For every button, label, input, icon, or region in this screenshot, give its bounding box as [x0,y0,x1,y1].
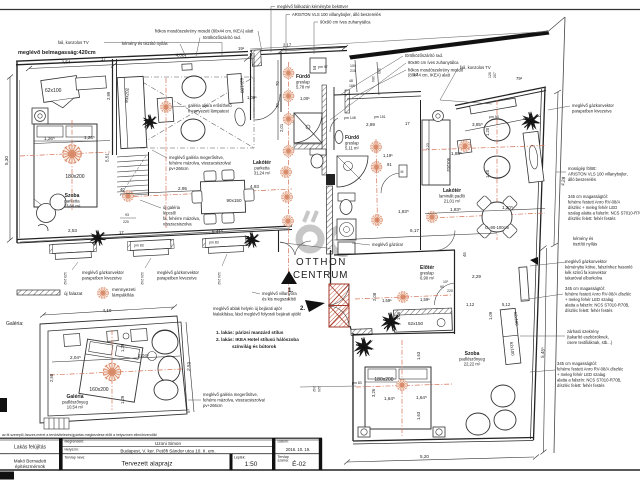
corridor double doors under living1 [280,241,311,255]
svg-text:OTTHON: OTTHON [296,257,347,268]
svg-text:kémény és: kémény és [573,236,593,241]
svg-text:új galéria: új galéria [163,205,181,210]
svg-text:5,30: 5,30 [4,156,9,165]
lamp stairs bottom [123,191,134,202]
galeria chairs right [152,330,178,354]
svg-text:70: 70 [275,103,280,108]
svg-text:2,99: 2,99 [106,91,111,100]
svg-text:1,26⁵: 1,26⁵ [44,136,55,141]
svg-text:Uzoni Simon: Uzoni Simon [155,441,181,446]
svg-text:5,78 m²: 5,78 m² [296,85,311,90]
svg-text:19⁵: 19⁵ [238,46,245,51]
galeria inner box [48,322,187,416]
legend lamp [98,288,109,299]
svg-text:fehérre festett Anro RV-08/A d: fehérre festett Anro RV-08/A díszléc [565,292,631,297]
svg-text:5,12: 5,12 [502,302,511,307]
window bay 3 [202,236,249,253]
svg-text:Tervezett alaprajz: Tervezett alaprajz [122,461,173,468]
svg-text:5⁵: 5⁵ [186,408,191,413]
svg-text:1,83⁵: 1,83⁵ [450,207,461,212]
dim 6,41 bottom [20,228,290,242]
arrow 2 [305,300,325,312]
svg-text:22,22 m²: 22,22 m² [464,362,481,367]
wardrobe 62x100 szoba2 [500,308,521,364]
svg-text:pm 93: pm 93 [489,115,499,119]
svg-text:pm 83: pm 83 [134,244,144,248]
svg-text:1,19⁵: 1,19⁵ [383,153,393,158]
svg-text:1,00⁵: 1,00⁵ [300,96,310,101]
svg-text:2,53: 2,53 [68,228,77,233]
lamp dining [224,187,235,198]
pouf chairs szoba1 [37,204,56,223]
armchair living2 a [484,119,510,141]
shower bath1 [294,113,322,143]
svg-text:2,58: 2,58 [49,373,54,382]
galeria nightstands [64,333,81,346]
galeria outline outer [40,316,187,423]
title block frame [0,438,322,470]
thin roofline above band [250,32,548,50]
dim 5,30 left [9,77,11,240]
mirror M box hall [399,165,407,177]
kitchen fridge [338,242,355,254]
bath2 left wall upper [333,87,335,150]
armchair living2 b [484,156,510,178]
svg-text:6,41⁵: 6,41⁵ [212,229,223,234]
svg-text:1,63: 1,63 [416,351,421,360]
dim 5,20 bottom [347,457,534,462]
szoba2 bottom wall [353,438,534,442]
armchairs szoba2 [466,413,490,435]
svg-text:1,00⁵: 1,00⁵ [247,95,257,100]
svg-text:1,20: 1,20 [485,127,490,136]
lamp living1 coffee [161,102,172,113]
red axis eloter [355,295,452,299]
svg-text:kék színű fa konvektor: kék színű fa konvektor [565,270,607,275]
svg-text:álló beszerelés: álló beszerelés [568,177,596,182]
svg-text:pm 148: pm 148 [344,116,356,120]
dim line 4,28 right [554,92,558,245]
wc bath1 [310,149,326,168]
gazkonvektor radiator right [519,267,529,301]
lamp szoba2 [397,380,408,391]
wall segment below entrance [351,329,372,336]
leaders top [104,7,318,58]
svg-text:2,17: 2,17 [283,43,292,48]
svg-text:(takarító eszközöknek,: (takarító eszközöknek, [567,335,609,340]
svg-text:180x200: 180x200 [374,377,393,383]
dims living2 [465,116,541,131]
svg-text:lámpákílás: lámpákílás [112,293,135,298]
bottom window wall left section (double) [17,226,292,240]
svg-text:meglévő ablak helyén új bejára: meglévő ablak helyén új bejárati ajtó! [213,306,282,311]
svg-text:Tervlap neve:: Tervlap neve: [65,456,86,460]
entrance swing arcs [328,284,349,327]
svg-text:+ meleg fehér LED szalag: + meleg fehér LED szalag [565,297,614,302]
svg-text:124 242: 124 242 [217,272,221,285]
svg-text:1,64⁵: 1,64⁵ [384,396,395,401]
washer M box bath1 [310,58,326,73]
hatched wall right of bath1 [345,90,350,113]
window bay 2 [127,239,174,256]
legend new wall hatched bar [17,290,60,295]
svg-text:5,45⁵: 5,45⁵ [540,347,545,358]
szoba2 left wall [352,333,354,441]
corridor wall stub [278,230,280,252]
bed 180x200 szoba1 [34,124,97,207]
svg-text:Lakás felújítás: Lakás felújítás [14,445,46,451]
svg-text:6,90 m²: 6,90 m² [420,276,435,281]
svg-text:lépcső!: lépcső! [163,211,176,216]
black corner tab bottom-left [0,472,14,480]
bath2 sink [335,131,343,144]
plants eloter [381,312,402,333]
svg-text:É-02: É-02 [292,459,306,468]
svg-text:pv+266cm: pv+266cm [169,166,189,171]
chimney hatched box top [252,50,262,66]
svg-text:M: M [312,66,317,70]
svg-text:Galéria:: Galéria: [6,321,24,327]
top dim line 2.54 / 4.08 [29,59,252,69]
arrow 1 [281,271,297,284]
svg-text:fehérre mázolva, visszacsiszol: fehérre mázolva, visszacsiszolva! [169,161,231,166]
svg-text:takaróval elburkolva: takaróval elburkolva [565,276,603,281]
svg-text:5,20: 5,20 [420,454,429,459]
dim line 5,45 right [544,248,547,452]
svg-text:kéménybe kötve, falszínhez has: kéménybe kötve, falszínhez hasonló [565,265,633,270]
svg-text:90x90 cm íves zuhanytálca: 90x90 cm íves zuhanytálca [320,20,371,25]
svg-text:fiókos mosdószekrény mosdó (80: fiókos mosdószekrény mosdó (80x44 cm, IK… [155,29,254,34]
svg-text:2016. 10. 19.: 2016. 10. 19. [286,447,310,452]
svg-text:száma:: száma: [278,458,289,462]
dim line 1,26 szoba1 [34,141,110,144]
svg-text:62x150: 62x150 [408,321,424,326]
red axes szoba2 [356,384,452,387]
svg-text:164: 164 [371,76,375,82]
svg-text:1,59⁵: 1,59⁵ [382,298,392,303]
svg-text:17: 17 [101,57,106,62]
leader line bed szoba2 [300,386,356,387]
svg-text:2,01: 2,01 [279,123,284,132]
svg-text:2,53: 2,53 [186,361,192,371]
galeria bed rotated [79,339,143,402]
chimney black mid [326,174,335,185]
svg-text:70: 70 [275,81,280,86]
svg-text:meglévő gázkonvektor: meglévő gázkonvektor [82,270,125,275]
bath1 left wall [280,52,282,112]
svg-text:fa, fehérre mázolva,: fa, fehérre mázolva, [163,216,200,221]
hatched wall bath1 right [322,85,327,175]
svg-text:1,06: 1,06 [396,311,401,320]
svg-text:fehérre mázolva, visszacsiszol: fehérre mázolva, visszacsiszolva! [203,398,265,403]
svg-text:Dátum:: Dátum: [278,440,289,444]
svg-text:építészmérnök: építészmérnök [15,464,46,469]
washing machine szoba1 [32,108,48,124]
svg-text:1,63: 1,63 [416,411,421,420]
svg-text:mosógép fölött:: mosógép fölött: [568,166,597,171]
svg-text:1,20: 1,20 [485,169,490,178]
svg-text:ARISTON VLS 100 villanybojler,: ARISTON VLS 100 villanybojler, álló besz… [292,12,381,17]
living2/szoba2 right wall [534,88,546,440]
svg-text:parapetben kivezetve: parapetben kivezetve [572,109,612,114]
kitchen sink [338,193,355,215]
corridor wall left [250,53,252,120]
svg-text:345 cm magasságtól:: 345 cm magasságtól: [557,361,597,366]
sofa 90x202 living1 [117,76,147,148]
svg-text:kémény és tisztító nyílás: kémény és tisztító nyílás [122,41,168,46]
svg-text:+ meleg fehér LED szalag: + meleg fehér LED szalag [557,372,606,377]
svg-text:2,29: 2,29 [472,274,481,279]
svg-text:díszléc felett: fehér festés: díszléc felett: fehér festés [565,308,612,313]
black margin tab left [0,398,7,412]
svg-text:díszléc felett: fehér festés: díszléc felett: fehér festés [568,216,615,221]
outer wall top-left section (double line) [16,52,248,62]
svg-text:1,26⁵: 1,26⁵ [84,135,95,140]
window bay 1 [49,242,97,259]
svg-text:pm 151: pm 151 [374,115,386,119]
nightstand szoba2 right [433,427,445,437]
dim line bottom living2 [334,233,497,240]
outer wall left side [16,62,18,243]
svg-text:2,54: 2,54 [62,60,71,65]
red axes living1 [165,78,167,228]
svg-text:160x200: 160x200 [89,387,108,393]
svg-text:2,89: 2,89 [366,122,375,127]
svg-text:90: 90 [440,285,444,289]
dim 2,95 row [120,191,200,195]
svg-text:1,20⁵: 1,20⁵ [502,205,513,210]
lamp living2 table [460,141,471,152]
svg-text:1,29: 1,29 [120,395,125,404]
page top border [0,9,640,11]
svg-text:5,51: 5,51 [105,153,110,162]
svg-text:szalag alatta a falszín: NCS S: szalag alatta a falszín: NCS S7010-R70B, [568,211,640,216]
svg-text:345 cm magasságtól:: 345 cm magasságtól: [565,286,605,291]
entrance door red cross [329,284,349,327]
round dining table living2 [476,195,518,239]
door arc eloter top [436,231,455,251]
lamps living2 bottom [427,212,438,223]
dining table living1 [192,170,254,224]
bath2 door arc [330,118,338,132]
svg-text:fehérre festett Anro RV-08/A: fehérre festett Anro RV-08/A [568,200,621,205]
svg-text:2,95: 2,95 [178,186,187,191]
stairs treads [117,155,148,196]
svg-text:M: M [401,170,404,174]
wall left of living2 [420,100,422,250]
svg-text:pm 97: pm 97 [318,65,328,69]
svg-text:Budapest, V. ker. Petőfi Sándo: Budapest, V. ker. Petőfi Sándor utca 10.… [120,449,215,454]
sill hatched below shower [294,144,322,149]
svg-text:pm 83: pm 83 [209,241,219,245]
svg-text:79⁵: 79⁵ [516,76,523,81]
svg-text:meglévő gázkonvektor: meglévő gázkonvektor [565,259,608,264]
svg-text:180x200: 180x200 [65,174,84,180]
svg-text:mennyezeti: mennyezeti [112,287,136,292]
living1 gallery dashed outline [134,77,254,148]
svg-text:17: 17 [405,121,410,126]
couch 90x202 living2 [422,120,450,185]
svg-text:1,12: 1,12 [466,302,475,307]
svg-text:5,11 m²: 5,11 m² [345,146,359,151]
svg-text:díszléc + meleg fehér LED: díszléc + meleg fehér LED [568,205,617,210]
red axes living2 [430,213,545,218]
svg-text:meglévő belmagasság:420cm: meglévő belmagasság:420cm [18,50,96,56]
svg-text:31,24 m²: 31,24 m² [254,171,271,176]
svg-text:2,04⁵: 2,04⁵ [70,355,81,360]
svg-text:10⁵: 10⁵ [443,280,449,284]
sideboard living2 [523,131,544,182]
svg-text:215: 215 [350,69,356,73]
svg-text:O=90-100cm: O=90-100cm [485,225,510,230]
svg-text:meglévő gázkonvektor: meglévő gázkonvektor [157,270,200,275]
svg-text:parapetben kivezetve: parapetben kivezetve [82,276,122,281]
wall between szoba1 and stairs [112,59,114,155]
stair right wall [148,152,150,196]
svg-text:meglévő villanyóra: meglévő villanyóra [262,291,297,296]
szoba1 daybed 62x100 [41,76,81,111]
lamp chain bath column [283,68,294,79]
title block texts [14,440,310,470]
svg-text:csere textíliáknak, stb...): csere textíliáknak, stb...) [567,340,613,345]
svg-text:(80x44 cm, IKEA) alatt: (80x44 cm, IKEA) alatt [408,73,451,78]
small table living2 [457,139,472,154]
svg-text:1:50: 1:50 [245,461,258,468]
svg-text:alatta a falszín: NCS S7010-R7: alatta a falszín: NCS S7010-R70B, [557,378,621,383]
svg-text:kialakítása, lásd meglévő foly: kialakítása, lásd meglévő folyosói bejár… [213,312,301,317]
svg-text:Helyszín:: Helyszín: [65,448,79,452]
armchair living1 a [182,76,206,98]
galeria dim 4,10 [43,307,174,315]
armchair living1 b [181,119,205,141]
svg-text:1,83⁵: 1,83⁵ [398,209,409,214]
svg-text:220: 220 [123,220,129,224]
radiator label leaders [72,254,227,270]
svg-text:17: 17 [119,230,124,235]
wall stub below entrance [350,326,353,336]
svg-text:120: 120 [488,72,492,78]
svg-text:CENTRUM: CENTRUM [293,270,348,281]
svg-text:Makó Bernadett: Makó Bernadett [14,459,47,464]
svg-text:62x100: 62x100 [239,78,245,94]
corridor door arc [254,94,280,120]
svg-text:és kis megszakító!: és kis megszakító! [262,297,296,302]
svg-text:tisztító nyílás: tisztító nyílás [573,242,597,247]
kitchen hatched wall [327,186,333,254]
wall eloter/szoba2 vertical [454,250,456,334]
svg-text:124 242: 124 242 [140,272,144,285]
boundary top right tick [548,17,565,32]
szoba2 top wall [353,333,454,335]
tv rect on top wall [182,64,192,71]
plant living1 [142,114,158,130]
svg-text:90x90 cm íves zuhanytálca: 90x90 cm íves zuhanytálca [408,60,459,65]
svg-text:10,54 m²: 10,54 m² [67,405,84,410]
watermark otthon centrum logo [299,211,347,253]
svg-text:meglévő galéria megerősítve,: meglévő galéria megerősítve, [169,155,224,160]
svg-text:meglévő falikazán kéménybe bek: meglévő falikazán kéménybe bekötve! [277,4,348,9]
svg-text:fehérre festett Anro RV-08/A d: fehérre festett Anro RV-08/A díszléc [557,367,623,372]
galeria lamp [103,363,120,380]
svg-text:mennyezeti lámpatest: mennyezeti lámpatest [188,109,230,114]
svg-text:2,08: 2,08 [372,292,377,301]
svg-text:90x202: 90x202 [124,87,130,103]
svg-text:93: 93 [125,213,129,217]
svg-text:meglévő galéria megerősítve,: meglévő galéria megerősítve, [203,392,258,397]
svg-text:3,26: 3,26 [371,388,376,397]
svg-text:1. lakás: párizsi manzárd stíl: 1. lakás: párizsi manzárd stílus [216,330,284,335]
svg-text:6,17: 6,17 [410,228,419,233]
svg-text:90x150: 90x150 [226,198,242,203]
svg-text:törölközőszárító rad.: törölközőszárító rad. [405,53,443,58]
svg-text:új falazat: új falazat [64,291,83,296]
wall under living2 [334,250,455,255]
svg-text:207: 207 [493,72,497,78]
tv cabinet living2 top [470,98,517,114]
property boundary right (thin) [554,17,565,453]
svg-text:48: 48 [349,79,353,83]
svg-text:2,23: 2,23 [426,143,430,150]
svg-text:220: 220 [447,289,453,293]
bed 180x200 szoba2 [365,367,431,429]
svg-text:1,88⁵: 1,88⁵ [451,151,462,156]
svg-text:4,93: 4,93 [250,184,259,189]
svg-text:zárható szekrény: zárható szekrény [567,329,600,334]
svg-text:40: 40 [120,187,125,192]
red axis szoba1 [20,152,110,156]
top wall mid section over bath [250,47,347,52]
svg-text:Megrendelő:: Megrendelő: [65,440,84,444]
galeria steps [44,418,69,429]
svg-text:ARISTON VLS 100 villanybojler,: ARISTON VLS 100 villanybojler, [568,172,628,177]
nightstand szoba2 left [358,427,370,437]
side oval living1 [234,107,246,126]
lamp eloter [398,292,409,303]
svg-text:az itt szereplő összes méret a: az itt szereplő összes méret a tervkivit… [2,433,157,437]
svg-text:3,85⁵: 3,85⁵ [472,122,483,127]
svg-text:123 242: 123 242 [63,272,67,285]
coffee table living1 [157,97,174,122]
svg-text:fali, konzolos TV: fali, konzolos TV [460,65,491,70]
corridor header line [280,243,331,249]
svg-text:91: 91 [387,162,392,167]
galeria red axes [50,369,182,375]
cabinet 62x100 living1 [227,74,243,104]
svg-text:galéria aljára erősíthető: galéria aljára erősíthető [188,103,232,108]
kitchen stove [337,219,356,240]
kitchen counter 62x150 [394,308,453,332]
svg-text:meglévő gázóra!: meglévő gázóra! [372,242,403,247]
lamp szoba1 [63,145,81,163]
door arc eloter right [434,283,454,305]
svg-text:1,09: 1,09 [488,311,493,320]
svg-text:díszléc felett: fehér festés: díszléc felett: fehér festés [557,383,604,388]
svg-text:törölközőszárító rad.: törölközőszárító rad. [203,35,241,40]
black corner marker [530,257,538,265]
stair diagonal [120,156,146,196]
svg-text:345 cm magasságtól:: 345 cm magasságtól: [568,194,608,199]
svg-text:parapetben kivezetve: parapetben kivezetve [157,276,197,281]
plants window sills [89,229,106,246]
svg-text:1,59⁵: 1,59⁵ [420,297,430,302]
thick black roof band [349,31,550,60]
wire window line left wall [19,80,21,238]
svg-text:Lépték:: Lépték: [234,456,246,460]
wall stub above entrance [330,250,332,285]
page bottom border [0,469,640,471]
svg-text:62x100: 62x100 [45,88,62,94]
svg-text:1,29: 1,29 [120,343,125,352]
